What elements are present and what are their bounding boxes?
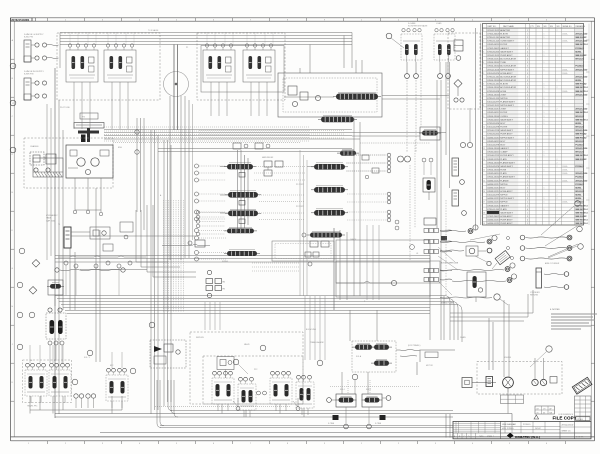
svg-text:1: 1 (544, 155, 545, 157)
small approval table (535, 406, 555, 414)
swing brake box E6 (150, 340, 186, 368)
svg-text:SERIAL NO.: SERIAL NO. (563, 25, 573, 28)
frame zone dividers top (48, 18, 566, 21)
cluster F upper sub-box (217, 357, 234, 379)
svg-text:MAIN RELIEF: MAIN RELIEF (262, 156, 274, 159)
parts table frame (483, 24, 584, 226)
svg-text:SERVICE: SERVICE (196, 337, 205, 339)
balloon 2 (10, 100, 16, 106)
svg-text:9: 9 (483, 116, 484, 118)
frame zone dividers right (591, 59, 594, 401)
diagram-table separator line (480, 24, 482, 226)
center channel connector blocks (239, 173, 245, 224)
svg-text:14: 14 (483, 170, 485, 172)
svg-text:1: 1 (544, 123, 545, 125)
KOMATSU logo (507, 433, 540, 439)
svg-text:20001-: 20001- (562, 69, 568, 71)
svg-text:20001-: 20001- (562, 202, 568, 204)
block G labels (310, 341, 362, 358)
solenoid pair blocks mid (206, 270, 226, 297)
pump outlet pair lines (158, 149, 352, 152)
svg-text:1: 1 (544, 55, 545, 57)
riser bundle right of pump (135, 118, 144, 230)
svg-text:1: 1 (544, 202, 545, 204)
main pump P1 (77, 158, 85, 166)
svg-text:1: 1 (483, 30, 484, 32)
svg-text:S-TIME: S-TIME (375, 423, 382, 425)
main pump circle PM (503, 377, 514, 392)
hose row y231 (440, 225, 478, 234)
frame zone letters left (12, 39, 14, 384)
title block frame (453, 421, 591, 438)
parts table row entries (483, 29, 588, 225)
A5 small parts (284, 86, 334, 107)
balloon 4 (386, 33, 392, 39)
SV port circles (405, 62, 451, 78)
svg-text:PG: PG (82, 117, 85, 119)
svg-text:S-CASE: S-CASE (408, 22, 416, 25)
valve body center channel (238, 150, 249, 232)
svg-text:2: 2 (557, 191, 558, 193)
svg-text:FILE COPY: FILE COPY (553, 415, 577, 420)
junction circle node J1 (164, 72, 189, 97)
pilot group dashed enclosure L (57, 33, 160, 100)
pump unit box (66, 145, 113, 178)
hose row y242 (440, 235, 497, 244)
svg-text:12: 12 (483, 148, 485, 150)
svg-text:1: 1 (544, 37, 545, 39)
svg-text:20001-: 20001- (562, 173, 568, 175)
svg-text:MOTOR: MOTOR (426, 365, 433, 367)
hose leaders to balloon (541, 201, 583, 257)
control valve spool S7 (314, 187, 345, 193)
svg-text:20001-: 20001- (562, 33, 568, 35)
solenoid manifold G2 (362, 394, 391, 407)
G dotted feed line (330, 380, 420, 394)
return strainer column (64, 227, 71, 248)
svg-text:SOL. V: SOL. V (84, 357, 91, 359)
E cluster feed risers (30, 345, 122, 368)
svg-text:DRAIN: DRAIN (460, 336, 466, 339)
frame zone dividers left (11, 59, 15, 401)
G riser wires (342, 310, 377, 394)
right valve trios (424, 229, 452, 282)
svg-text:8-83R P/N: 8-83R P/N (24, 74, 34, 76)
cluster E4 (106, 368, 128, 408)
svg-text:20Y-62: 20Y-62 (535, 428, 541, 430)
valve spool SPA5 (336, 94, 378, 100)
cluster leader balloons bottom-left (87, 322, 155, 374)
svg-text:SOL-1: SOL-1 (340, 389, 345, 391)
svg-text:20001-: 20001- (562, 41, 568, 43)
gear pump 1 (532, 379, 538, 385)
nested corner wires left-mid (136, 205, 196, 277)
svg-text:SWING P-LINE: SWING P-LINE (441, 303, 454, 305)
svg-text:2: 2 (557, 166, 558, 168)
title block right cells (560, 421, 591, 438)
balloon 1 (10, 63, 16, 69)
pilot group dashed enclosure C (197, 33, 285, 100)
cluster stem junctions (233, 398, 300, 410)
svg-text:T1: T1 (58, 224, 60, 226)
PPC valve A4 internals (243, 44, 275, 89)
svg-text:17: 17 (483, 202, 485, 204)
svg-text:(FOR TRAVEL): (FOR TRAVEL) (408, 344, 421, 347)
title block center cells (501, 421, 561, 438)
short dashed pilot stubs mid (252, 263, 300, 271)
svg-text:0 2 4 6: 0 2 4 6 (577, 419, 584, 421)
svg-text:20Y-62-15102: 20Y-62-15102 (562, 425, 574, 427)
wide box mid-right (336, 261, 440, 283)
hose group right (3 rows) (520, 235, 572, 261)
svg-text:1: 1 (544, 84, 545, 86)
cluster F4 (296, 375, 314, 415)
pump drain lines (75, 178, 101, 212)
center trunk verticals (334, 118, 360, 310)
suction valve SV1 internals (401, 29, 422, 63)
svg-text:11: 11 (483, 137, 485, 139)
svg-text:S-VALVE LH SUPPLY: S-VALVE LH SUPPLY (24, 33, 44, 36)
wire G to pump (396, 350, 455, 363)
caution triangle (534, 415, 539, 419)
junction circles row mid-left (58, 256, 147, 270)
svg-text:2: 2 (557, 159, 558, 161)
svg-text:7: 7 (483, 94, 484, 96)
strainer column D3a (452, 158, 459, 176)
dotted pilot lines spools to right (254, 155, 386, 220)
svg-text:1: 1 (544, 152, 545, 154)
svg-text:HYD. PIPING: HYD. PIPING (502, 428, 514, 430)
inspection stamp rotated (572, 377, 592, 394)
spool pair top mid (195, 227, 261, 261)
svg-text:CHARGE: CHARGE (30, 145, 39, 148)
mini stamp leader (492, 263, 497, 269)
parts table column lines (487, 24, 575, 226)
A5 riser wires (300, 45, 362, 74)
cluster E2 (25, 363, 47, 403)
bridge wire with circle (336, 280, 397, 285)
port circles stack C2 (387, 153, 391, 222)
mid horizontal bus upper (55, 256, 430, 263)
svg-text:1: 1 (544, 51, 545, 53)
valve box VB1 (467, 272, 486, 302)
svg-text:4. NOTES: 4. NOTES (550, 309, 560, 311)
svg-text:CHECK: CHECK (350, 239, 357, 241)
mini stamp parallelogram (495, 250, 510, 264)
svg-text:1: 1 (544, 87, 545, 89)
solenoid manifold G1 (327, 394, 357, 407)
mid horizontal bus lower (55, 296, 430, 314)
svg-text:3: 3 (483, 51, 484, 53)
G resistor blocks (328, 415, 386, 425)
cluster F1 (212, 371, 234, 411)
svg-text:P1 PORT: P1 PORT (296, 184, 305, 186)
svg-text:BOOM LINE: BOOM LINE (306, 329, 317, 331)
tee handle (78, 128, 99, 142)
right dashed enclosure (448, 33, 480, 109)
svg-text:1: 1 (544, 105, 545, 107)
G port circles (344, 407, 372, 429)
svg-text:TRAVEL ALARM: TRAVEL ALARM (310, 341, 324, 344)
pilot dotted lines stack C (199, 166, 226, 219)
svg-text:8: 8 (483, 105, 484, 107)
svg-text:2: 2 (557, 80, 558, 82)
pump riser lines (504, 300, 544, 414)
center group outer box (201, 46, 284, 93)
svg-text:SWING: SWING (222, 261, 229, 263)
svg-text:4D95L-1: 4D95L-1 (487, 436, 494, 438)
notes block (550, 309, 597, 329)
ACC2 ports (31, 81, 47, 98)
drawing number cell top-left (11, 18, 36, 22)
top manifold wires (60, 33, 352, 69)
control valve spool S3 (220, 209, 261, 216)
F mid circles (257, 391, 267, 395)
filter F1 (454, 40, 463, 60)
svg-text:SOL-2: SOL-2 (366, 389, 371, 391)
right dotted verticals mid (410, 140, 446, 296)
parts table row lines (483, 32, 584, 222)
svg-text:ENGINE: ENGINE (504, 357, 512, 359)
frame zone digits bottom (28, 443, 548, 445)
pilot pump P3 (85, 169, 90, 174)
svg-text:ARM CYLINDER: ARM CYLINDER (545, 262, 560, 265)
small valve SV-A (188, 240, 205, 247)
bottom dashed enclosure extension (190, 332, 303, 404)
svg-text:15: 15 (483, 180, 485, 182)
bypass valve D1 (419, 127, 441, 140)
junction row drop wires (66, 265, 119, 296)
drain collector (30, 379, 122, 413)
svg-text:SOL A: SOL A (356, 355, 362, 358)
svg-text:18: 18 (483, 212, 485, 214)
svg-text:8-83L P/N: 8-83L P/N (24, 37, 33, 39)
file copy stamp (553, 414, 577, 421)
mid trunk verticals (151, 130, 171, 414)
svg-text:2: 2 (557, 162, 558, 164)
control valve spool S8 (314, 210, 345, 216)
left extra verticals (47, 104, 51, 260)
svg-text:1: 1 (544, 116, 545, 118)
extra long horizontal mid-right (352, 136, 430, 143)
motor box M (462, 378, 496, 388)
svg-text:1: 1 (544, 209, 545, 211)
spool mid-right row (302, 231, 345, 247)
svg-text:1: 1 (544, 119, 545, 121)
coupling block (486, 377, 493, 387)
hydraulic tank T1 (33, 158, 63, 177)
pressure switch cluster E1 (46, 308, 66, 339)
main pump P2 (91, 158, 99, 166)
cluster F balloons (233, 345, 323, 374)
cluster F drains (222, 374, 358, 417)
table scan-tone strips (487, 28, 583, 225)
svg-text:LINE DIAGRAM: LINE DIAGRAM (502, 423, 516, 426)
hose row y297 with valve circle (440, 294, 508, 305)
left trunk verticals (55, 68, 100, 418)
PPC valve A1 internals (66, 44, 98, 89)
small parts upper-center (233, 143, 270, 149)
svg-text:20001-: 20001- (562, 73, 568, 75)
svg-text:S-VALVE RH SUPPLY: S-VALVE RH SUPPLY (24, 70, 45, 73)
E group labels (27, 405, 38, 408)
svg-text:1: 1 (544, 91, 545, 93)
strainer column D3b (452, 190, 459, 206)
svg-text:20001-: 20001- (562, 170, 568, 172)
svg-text:1: 1 (544, 98, 545, 100)
valve box VL1 (47, 280, 64, 306)
svg-text:16: 16 (483, 191, 485, 193)
gear pump 2 (540, 379, 546, 385)
verticals center-low (205, 225, 379, 360)
svg-text:S-TIME: S-TIME (328, 423, 335, 425)
svg-text:P1: P1 (186, 47, 188, 49)
charge valve CV1 (30, 145, 56, 172)
right vertical bundle near spools (300, 150, 307, 296)
bottom center dashed enclosure (203, 356, 303, 404)
gauge port circles row (74, 394, 96, 408)
A5 outlet lines right (382, 96, 449, 100)
svg-text:TRAVEL PPC: TRAVEL PPC (27, 405, 38, 408)
solenoid block G-top dashed box (352, 341, 396, 372)
svg-text:2: 2 (557, 180, 558, 182)
revision table left of title (453, 421, 501, 438)
svg-text:2: 2 (557, 195, 558, 197)
trio slant leaders (438, 247, 458, 295)
filter diamond FL1 (19, 248, 40, 267)
PPC valve A3 internals (203, 44, 235, 89)
svg-text:13: 13 (483, 159, 485, 161)
svg-text:REMARKS: REMARKS (576, 25, 586, 28)
svg-text:LOAD: LOAD (436, 22, 442, 25)
svg-text:2: 2 (557, 55, 558, 57)
check valve box D4 (424, 218, 436, 225)
cooler circles (460, 142, 473, 215)
svg-text:J: J (12, 344, 13, 346)
svg-text:P2 PORT: P2 PORT (296, 206, 305, 208)
pump small parts (68, 150, 109, 168)
coupler circles small (507, 237, 514, 260)
pump-to-valve horizontal bus (104, 130, 446, 143)
accumulator ACC2 (24, 78, 31, 100)
ACC1 ports (31, 43, 59, 60)
pump aux part (550, 377, 557, 384)
tank return lines (70, 232, 196, 310)
wire risers top-left (170, 45, 181, 261)
scattered component labels (30, 29, 512, 391)
port circles left stack (195, 164, 199, 221)
pilot manifold bar (74, 123, 104, 129)
bus corner turns left (157, 380, 178, 427)
svg-text:20001-: 20001- (562, 91, 568, 93)
hose row y281 (452, 274, 517, 283)
dotted vertical bundle mid (164, 200, 184, 312)
balloon 3 (10, 147, 16, 153)
center big outline box (336, 240, 430, 297)
svg-text:10: 10 (483, 127, 485, 129)
accumulator ACC1 (24, 40, 31, 62)
svg-text:PILOT LINE: PILOT LINE (60, 107, 70, 109)
pump unit dashed enclosure (24, 138, 113, 188)
svg-text:6: 6 (483, 84, 484, 86)
control valve spool S1 (220, 163, 256, 170)
cluster E3 (49, 363, 71, 403)
dotted companions pump bus (104, 127, 345, 141)
pilot dotted risers from PPC A1 A2 (70, 33, 273, 46)
left dark block labels (441, 236, 459, 305)
bottom horizontal bus (55, 407, 512, 433)
svg-text:KOMATSU (W.A.): KOMATSU (W.A.) (515, 435, 540, 439)
svg-text:1: 1 (544, 170, 545, 172)
svg-text:1: 1 (544, 69, 545, 71)
svg-text:2: 2 (557, 30, 558, 32)
svg-text:4: 4 (483, 62, 484, 64)
svg-text:1: 1 (544, 187, 545, 189)
svg-text:2: 2 (557, 87, 558, 89)
suction valve SV2 internals (434, 29, 455, 63)
svg-text:SS: SS (543, 412, 545, 414)
gauge circles G1 G2 (398, 156, 411, 162)
svg-text:DWG: DWG (479, 436, 484, 438)
pilot dotted lines stack C2 (347, 155, 387, 220)
pump group dashed enclosure (477, 362, 562, 395)
svg-text:PC200-5: PC200-5 (523, 424, 530, 426)
hose mid-left (55, 268, 125, 272)
filter diamond FL2 (17, 282, 37, 294)
right descend bundle (430, 256, 533, 371)
mid horizontal with hump (162, 244, 210, 245)
svg-text:1: 1 (544, 198, 545, 200)
control valve spool S4 (321, 117, 354, 123)
hose row y270 (440, 263, 515, 272)
zone letter column right edge (586, 24, 590, 226)
control valve spool S2 (220, 191, 261, 198)
svg-text:20001-: 20001- (562, 166, 568, 168)
E group outer dashed box (23, 360, 72, 403)
svg-text:RETURN: RETURN (530, 295, 539, 297)
svg-text:TO S-VALVE: TO S-VALVE (148, 29, 159, 32)
PPC output drop wires (74, 89, 267, 129)
relief valves RC1 (264, 161, 283, 176)
spool G-b (374, 345, 389, 350)
svg-text:PART NO.: PART NO. (488, 25, 497, 28)
svg-text:ENG: ENG (118, 147, 122, 149)
svg-text:2: 2 (557, 198, 558, 200)
svg-text:2: 2 (557, 109, 558, 111)
svg-text:SLOW RETURN VALVE: SLOW RETURN VALVE (408, 25, 428, 28)
E1 bottom ports (48, 341, 64, 363)
svg-text:HYDRAULIC: HYDRAULIC (46, 214, 58, 217)
pump drain end circles (73, 210, 103, 216)
svg-text:VALVE: VALVE (244, 343, 250, 346)
signature boxes upper (501, 395, 524, 404)
frame zone dividers bottom (48, 441, 566, 444)
cluster F3 (270, 371, 292, 411)
parts table header text (488, 25, 586, 28)
svg-text:1: 1 (544, 33, 545, 35)
pump balloon (530, 346, 552, 367)
bus right descend curves (430, 296, 462, 343)
small parts right-center (362, 155, 433, 179)
extra leader slants hose area (470, 234, 577, 258)
svg-text:19: 19 (483, 223, 485, 225)
balloon circles left (17, 312, 35, 350)
svg-text:1 0 2 3 5: 1 0 2 3 5 (576, 436, 583, 438)
small box row mid-left 2 (103, 222, 133, 251)
dashed risers right top (407, 62, 421, 152)
second hump wire G (400, 356, 417, 375)
nested box upper-mid (272, 241, 334, 266)
